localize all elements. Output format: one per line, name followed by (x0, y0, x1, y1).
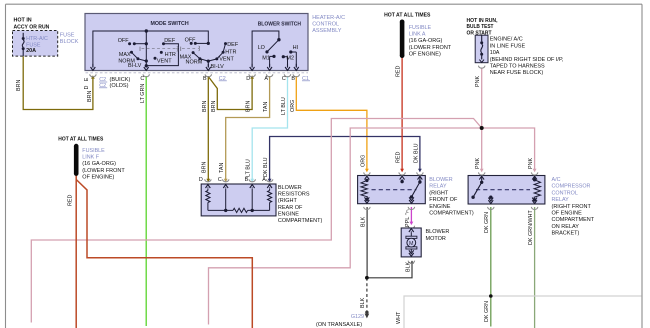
svg-text:MODE SWITCH: MODE SWITCH (151, 21, 189, 27)
svg-text:ENGINE/ A/C: ENGINE/ A/C (490, 37, 523, 43)
svg-text:DK BLU: DK BLU (413, 143, 419, 163)
svg-text:HOT AT ALL TIMES: HOT AT ALL TIMES (384, 13, 431, 19)
svg-text:ON RELAY: ON RELAY (552, 224, 580, 230)
svg-text:BLK: BLK (360, 297, 366, 308)
svg-text:A/C: A/C (552, 177, 561, 183)
svg-text:OFF: OFF (185, 37, 196, 43)
svg-text:BI-LV: BI-LV (211, 64, 225, 70)
svg-text:RESISTORS: RESISTORS (278, 192, 310, 198)
svg-text:E: E (84, 77, 90, 81)
svg-text:BLOCK: BLOCK (60, 39, 79, 45)
svg-text:BRN: BRN (16, 80, 22, 91)
svg-text:(RIGHT: (RIGHT (429, 190, 449, 196)
svg-text:A: A (264, 76, 268, 82)
svg-text:LT BLU: LT BLU (281, 97, 287, 115)
svg-text:DK GRN: DK GRN (484, 212, 490, 233)
svg-text:RED: RED (396, 66, 402, 77)
svg-text:20A: 20A (26, 48, 36, 54)
svg-text:FRONT OF: FRONT OF (429, 197, 458, 203)
svg-text:BLOWER: BLOWER (426, 229, 450, 235)
svg-text:BLOWER: BLOWER (429, 177, 452, 183)
svg-text:HTR: HTR (165, 52, 176, 58)
svg-text:BLK: BLK (405, 261, 411, 272)
svg-text:(LOWER FRONT: (LOWER FRONT (82, 168, 125, 174)
svg-text:BULB TEST: BULB TEST (467, 24, 495, 30)
svg-text:B: B (203, 76, 207, 82)
svg-text:DK BLU: DK BLU (263, 157, 269, 177)
svg-text:FUSIBLE: FUSIBLE (82, 148, 105, 154)
svg-text:ORG: ORG (290, 100, 296, 112)
svg-text:LINK A: LINK A (409, 32, 426, 38)
svg-text:CONTROL: CONTROL (312, 22, 339, 28)
svg-text:PNK: PNK (528, 158, 534, 169)
svg-text:COMPARTMENT): COMPARTMENT) (278, 218, 323, 224)
svg-text:RELAY: RELAY (429, 184, 447, 190)
svg-text:FUSE: FUSE (60, 32, 75, 38)
svg-text:(RIGHT: (RIGHT (278, 198, 298, 204)
svg-text:PPL: PPL (405, 217, 411, 227)
svg-text:DEF: DEF (164, 38, 176, 44)
svg-text:G129: G129 (351, 314, 364, 320)
svg-text:MAX: MAX (119, 52, 131, 58)
svg-text:(16 GA-ORG): (16 GA-ORG) (409, 38, 443, 44)
svg-text:(16 GA-ORG): (16 GA-ORG) (82, 161, 116, 167)
svg-text:HEATER-A/C: HEATER-A/C (312, 15, 345, 21)
svg-text:BRACKET): BRACKET) (552, 231, 580, 237)
svg-text:C: C (140, 76, 144, 82)
svg-text:NORM: NORM (186, 60, 203, 66)
svg-text:(BEHIND RIGHT SIDE OF I/P,: (BEHIND RIGHT SIDE OF I/P, (490, 57, 564, 63)
svg-text:PNK: PNK (475, 76, 481, 87)
svg-text:COMPARTMENT: COMPARTMENT (552, 217, 595, 223)
svg-text:CONTROL: CONTROL (552, 190, 578, 196)
svg-text:VENT: VENT (157, 58, 172, 64)
svg-text:BLOWER SWITCH: BLOWER SWITCH (258, 21, 301, 27)
svg-text:NEAR FUSE BLOCK): NEAR FUSE BLOCK) (490, 70, 544, 76)
svg-text:RELAY: RELAY (552, 197, 570, 203)
svg-text:M: M (409, 241, 414, 247)
svg-text:LT GRN: LT GRN (140, 84, 146, 103)
svg-text:LT BLU: LT BLU (246, 159, 252, 177)
svg-text:ENGINE: ENGINE (278, 211, 299, 217)
svg-text:OF ENGINE): OF ENGINE) (82, 175, 114, 181)
svg-text:10A: 10A (490, 50, 500, 56)
svg-text:RED: RED (67, 195, 73, 206)
svg-text:OFF: OFF (118, 38, 129, 44)
svg-text:DEF: DEF (227, 42, 239, 48)
svg-text:RED: RED (396, 152, 402, 163)
svg-text:OF ENGINE: OF ENGINE (552, 211, 583, 217)
svg-text:BRN: BRN (211, 101, 217, 112)
svg-text:BRN: BRN (246, 101, 252, 112)
svg-text:TAPED TO HARNESS: TAPED TO HARNESS (490, 64, 545, 70)
svg-text:COMPARTMENT): COMPARTMENT) (429, 211, 474, 217)
svg-text:C: C (218, 177, 222, 183)
svg-text:HTR-A/C: HTR-A/C (26, 36, 48, 42)
svg-text:D: D (199, 177, 203, 183)
svg-text:TAN: TAN (263, 102, 269, 112)
svg-text:ENGINE: ENGINE (429, 204, 450, 210)
svg-text:ACCY OR RUN: ACCY OR RUN (14, 24, 50, 30)
svg-text:M2: M2 (286, 55, 294, 61)
svg-text:DK GRN: DK GRN (484, 301, 490, 322)
svg-text:DK GRN/WHT: DK GRN/WHT (528, 210, 534, 245)
svg-text:BRN: BRN (87, 91, 93, 102)
svg-text:(ON TRANSAXLE): (ON TRANSAXLE) (316, 322, 362, 328)
svg-text:ORG: ORG (360, 155, 366, 167)
svg-text:BI-LV: BI-LV (128, 63, 142, 69)
svg-text:BLK: BLK (361, 216, 367, 227)
svg-text:COMPRESSOR: COMPRESSOR (552, 184, 591, 190)
svg-text:BRN: BRN (202, 101, 208, 112)
svg-text:HOT IN RUN,: HOT IN RUN, (467, 18, 498, 24)
svg-text:(RIGHT FRONT: (RIGHT FRONT (552, 204, 592, 210)
svg-text:(OLDS): (OLDS) (110, 83, 129, 89)
svg-text:HI: HI (293, 45, 299, 51)
svg-text:D: D (84, 86, 90, 90)
svg-text:REAR OF: REAR OF (278, 205, 303, 211)
svg-text:HOT AT ALL TIMES: HOT AT ALL TIMES (58, 137, 104, 143)
svg-text:LO: LO (258, 45, 265, 51)
svg-text:HOT IN: HOT IN (14, 17, 32, 23)
svg-text:FUSIBLE: FUSIBLE (409, 25, 432, 31)
svg-text:BLOWER: BLOWER (278, 185, 302, 191)
svg-text:OF ENGINE): OF ENGINE) (409, 52, 441, 58)
svg-text:C: C (282, 76, 286, 82)
svg-text:PNK: PNK (475, 158, 481, 169)
svg-text:ASSEMBLY: ASSEMBLY (312, 28, 342, 34)
svg-text:(LOWER FRONT: (LOWER FRONT (409, 45, 452, 51)
svg-text:IN LINE FUSE: IN LINE FUSE (490, 43, 526, 49)
svg-text:VENT: VENT (219, 57, 234, 63)
svg-text:BRN: BRN (201, 162, 207, 173)
svg-text:TAN: TAN (219, 163, 225, 173)
svg-text:B: B (291, 76, 295, 82)
svg-text:WHT: WHT (396, 311, 402, 324)
svg-text:MOTOR: MOTOR (426, 236, 446, 242)
svg-text:LINK F: LINK F (82, 155, 99, 161)
svg-text:HTR: HTR (225, 49, 236, 55)
svg-text:D: D (246, 76, 250, 82)
svg-text:M1: M1 (262, 56, 270, 62)
